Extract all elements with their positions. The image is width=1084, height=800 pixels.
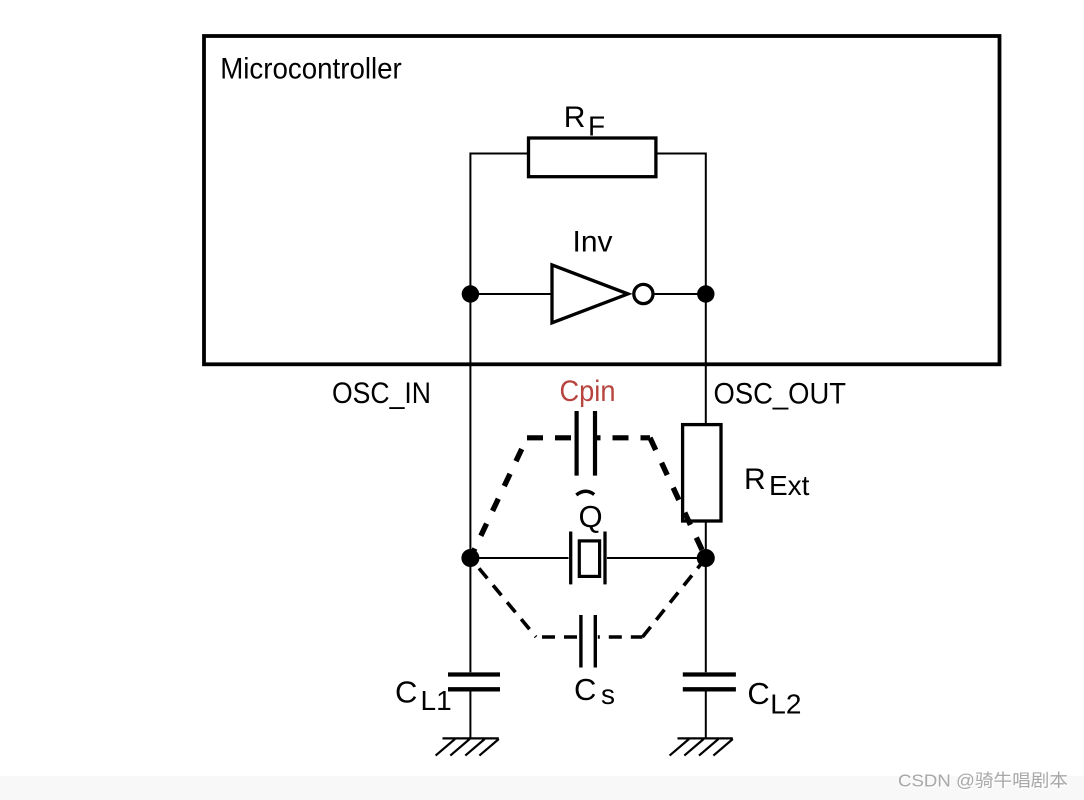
ground right <box>678 737 733 739</box>
wire dashed Cs left horizontal <box>536 635 578 639</box>
svg-text:C: C <box>747 676 769 711</box>
svg-text:OSC_OUT: OSC_OUT <box>714 377 847 410</box>
svg-text:R: R <box>744 463 766 496</box>
wire CL2 top <box>705 558 707 672</box>
svg-text:Q: Q <box>579 499 603 534</box>
svg-text:R: R <box>564 101 586 134</box>
resistor RF <box>529 138 656 177</box>
microcontroller box <box>204 36 1000 364</box>
wire crystal left <box>470 557 568 559</box>
wire dashed Cs left diagonal <box>470 558 536 637</box>
wire dashed Cpin right horizontal <box>597 435 650 440</box>
wire dashed Cs right diagonal <box>643 558 706 637</box>
wire CL1 top <box>469 558 471 672</box>
wire OSC_IN vertical <box>469 294 471 558</box>
svg-text:Cpin: Cpin <box>560 375 616 408</box>
svg-text:s: s <box>601 679 615 710</box>
wire feedback left <box>470 154 529 295</box>
svg-text:Inv: Inv <box>573 226 613 259</box>
wire dashed Cpin left diagonal <box>470 438 527 558</box>
wire RExt bottom <box>705 521 707 558</box>
wire CL1 bottom <box>469 691 471 738</box>
wire dashed Cpin left horizontal <box>527 435 575 440</box>
wire dashed Cpin right diagonal <box>650 438 706 558</box>
wire crystal right <box>607 557 706 559</box>
node inverter input junction <box>462 285 479 302</box>
svg-text:L1: L1 <box>421 685 452 716</box>
wire OSC_OUT vertical <box>705 294 707 426</box>
svg-text:F: F <box>588 111 605 142</box>
crystal Q <box>569 532 572 585</box>
inverter Inv triangle <box>552 265 628 323</box>
svg-text:CSDN @骑牛唱剧本: CSDN @骑牛唱剧本 <box>898 771 1068 791</box>
wire feedback right <box>656 154 706 295</box>
svg-text:OSC_IN: OSC_IN <box>332 377 431 410</box>
node right junction <box>697 549 715 567</box>
capacitor CL1 <box>448 672 500 676</box>
capacitor Cs plates <box>579 615 582 668</box>
svg-text:C: C <box>395 675 417 710</box>
svg-text:C: C <box>574 672 596 707</box>
inverter Inv output bubble <box>634 284 653 303</box>
capacitor Cpin plates <box>574 411 578 476</box>
node left junction <box>461 549 479 567</box>
ground left <box>443 737 499 739</box>
svg-text:Microcontroller: Microcontroller <box>220 53 402 86</box>
wire inverter input <box>470 293 552 295</box>
wire CL2 bottom <box>705 691 707 738</box>
resistor RExt <box>683 425 721 521</box>
node inverter output junction <box>697 285 714 302</box>
crystal Q arc mark <box>576 491 594 495</box>
svg-text:Ext: Ext <box>769 470 810 501</box>
wire inverter output <box>655 293 706 295</box>
capacitor CL2 <box>683 672 736 676</box>
svg-text:L2: L2 <box>770 688 801 719</box>
wire dashed Cs right horizontal <box>598 635 643 639</box>
watermark <box>0 776 1084 800</box>
